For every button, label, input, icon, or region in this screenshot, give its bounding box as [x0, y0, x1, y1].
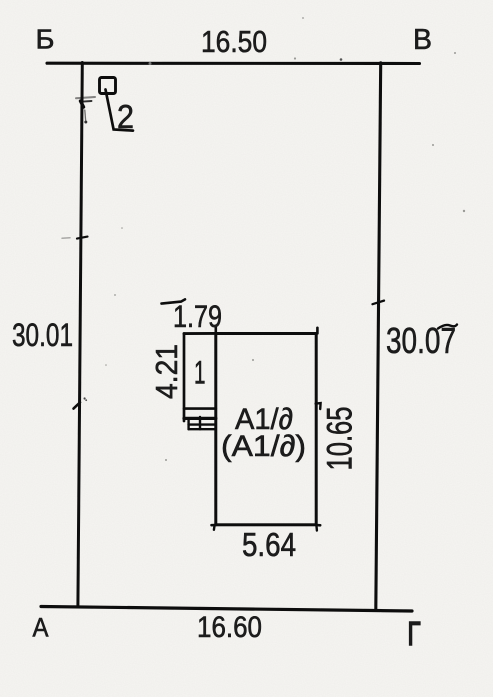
svg-text:16.60: 16.60: [197, 611, 262, 644]
svg-text:1: 1: [194, 355, 206, 391]
svg-text:Б: Б: [36, 24, 55, 55]
svg-text:2: 2: [117, 98, 134, 135]
svg-text:Г: Г: [408, 616, 421, 653]
svg-text:5.64: 5.64: [242, 526, 296, 563]
svg-text:4.21: 4.21: [149, 344, 184, 399]
svg-text:В: В: [413, 24, 432, 56]
svg-text:(А1/∂): (А1/∂): [221, 430, 306, 463]
svg-text:10.65: 10.65: [320, 407, 360, 471]
svg-text:А: А: [33, 613, 49, 643]
svg-text:1.79: 1.79: [173, 298, 222, 334]
svg-text:30.01: 30.01: [12, 317, 73, 353]
svg-text:16.50: 16.50: [201, 24, 267, 59]
svg-text:30.07: 30.07: [386, 320, 456, 361]
